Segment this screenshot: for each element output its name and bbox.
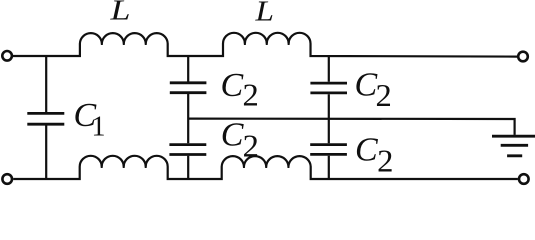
svg-text:2: 2 bbox=[243, 78, 259, 113]
svg-text:C: C bbox=[221, 67, 244, 104]
svg-text:1: 1 bbox=[92, 112, 106, 143]
svg-text:2: 2 bbox=[377, 143, 393, 178]
svg-text:2: 2 bbox=[376, 78, 392, 113]
svg-text:2: 2 bbox=[243, 128, 259, 163]
svg-text:L: L bbox=[109, 0, 130, 27]
svg-text:C: C bbox=[355, 132, 378, 169]
svg-text:C: C bbox=[355, 67, 378, 104]
svg-text:C: C bbox=[221, 117, 244, 154]
svg-text:L: L bbox=[254, 0, 274, 27]
